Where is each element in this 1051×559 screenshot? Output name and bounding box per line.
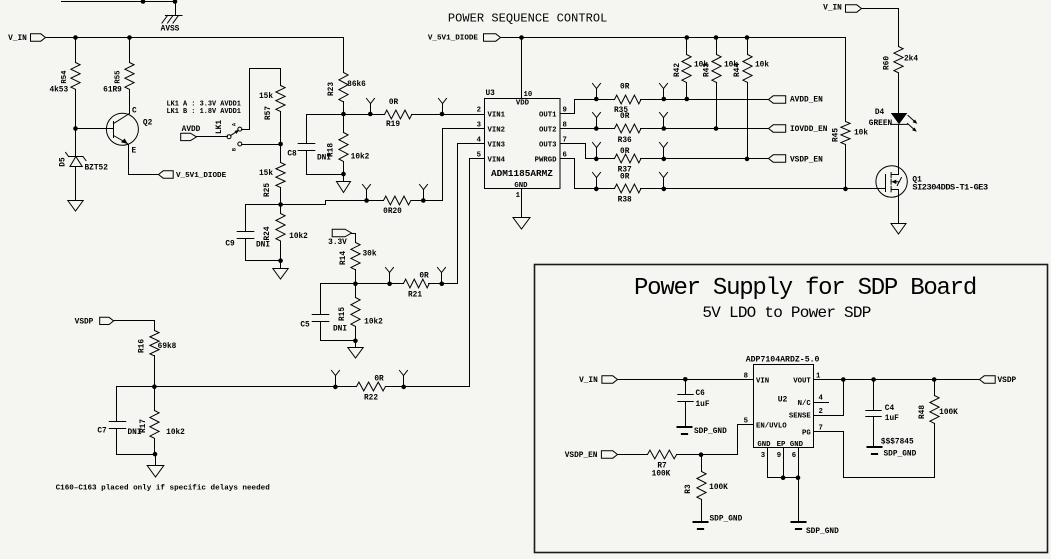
svg-text:VDD: VDD (516, 100, 530, 108)
ground SDP_GND below R3 (693, 516, 743, 530)
node V_5V1_DIODE flag (emitter) (159, 171, 227, 180)
svg-text:R16: R16 (139, 339, 147, 353)
text delay note (56, 485, 271, 493)
svg-text:OUT1: OUT1 (539, 111, 557, 119)
svg-text:7: 7 (819, 424, 823, 432)
junction R16/R17 node (152, 384, 157, 389)
ground below Q1 (891, 224, 906, 235)
wire VSDP to R16 (114, 321, 155, 331)
wire R7 to EN (677, 454, 738, 456)
resistor R60 (884, 47, 919, 114)
svg-text:10k2: 10k2 (364, 319, 383, 327)
svg-text:0R: 0R (419, 273, 429, 281)
resistor R57 (259, 69, 285, 145)
svg-text:C9: C9 (225, 241, 235, 249)
wire base to Q2 (76, 128, 114, 130)
svg-text:C160–C163 placed only if speci: C160–C163 placed only if specific delays… (56, 485, 271, 493)
svg-text:100K: 100K (939, 409, 958, 417)
junction R25/R24 node (278, 202, 283, 207)
resistor R19 (385, 99, 412, 129)
capacitor C4 (866, 380, 899, 448)
test point on VIN1 row (367, 99, 375, 117)
svg-text:86k6: 86k6 (347, 81, 366, 89)
capacitor C7 (97, 387, 155, 455)
svg-text:R36: R36 (618, 137, 632, 145)
svg-text:8: 8 (744, 372, 748, 380)
wire V_IN to R60 (862, 9, 899, 47)
resistor R16 (139, 331, 177, 387)
wire LK1-B to node AVDD1 (242, 144, 281, 146)
pins GND/EP/GND labels (757, 441, 803, 460)
svg-text:C6: C6 (696, 390, 706, 398)
junction R43 top (714, 35, 719, 40)
test point row1 right (660, 84, 668, 102)
svg-text:3: 3 (477, 122, 482, 130)
node VSDP flag (75, 317, 114, 326)
junction R15 bottom (353, 339, 358, 344)
capacitor C6 (678, 380, 710, 428)
svg-text:0R: 0R (620, 173, 630, 181)
svg-text:15k: 15k (259, 170, 273, 178)
junction R48 top (932, 377, 937, 382)
svg-text:C: C (132, 108, 137, 116)
junction R42 top (685, 35, 690, 40)
svg-text:R25: R25 (264, 183, 272, 197)
resistor R22 (357, 376, 386, 403)
ground SDP_GND below C6 (677, 427, 728, 436)
svg-text:0R: 0R (620, 148, 630, 156)
test point row1 left (593, 84, 601, 102)
op-amp U3 body (485, 90, 561, 190)
junction row3/R44 (745, 157, 750, 162)
svg-text:0R: 0R (389, 99, 399, 107)
junction C4 top (871, 377, 876, 382)
text subtitle 5V LDO to Power SDP (702, 304, 870, 322)
pin 2 SENSE wire (789, 380, 844, 421)
svg-text:R7: R7 (657, 463, 667, 471)
svg-text:R57: R57 (265, 106, 273, 120)
wire 3.3V to R14 (352, 234, 356, 243)
node 3.3V flag (328, 229, 351, 247)
wire R20 row (281, 201, 443, 205)
junction V_IN/R54 (73, 35, 78, 40)
svg-text:4: 4 (819, 394, 824, 402)
svg-text:V_IN: V_IN (823, 5, 842, 13)
svg-text:R45: R45 (833, 128, 841, 142)
node VSDP_EN flag (769, 155, 824, 165)
resistor R45 (833, 38, 869, 189)
svg-text:2: 2 (477, 107, 481, 115)
svg-text:AVDD: AVDD (182, 126, 201, 134)
svg-text:R22: R22 (364, 395, 378, 403)
wire top rail to AVSS (62, 2, 176, 16)
capacitor C5 (300, 284, 355, 341)
wire R22 row (155, 159, 485, 387)
svg-text:DNI: DNI (256, 242, 270, 250)
svg-text:C8: C8 (287, 151, 297, 159)
wire AVDD to LK1 (197, 136, 228, 138)
svg-text:PWRGD: PWRGD (535, 156, 558, 164)
pin 5 EN/UVLO wire (738, 417, 788, 454)
svg-text:30k: 30k (362, 251, 376, 259)
pin 1 VOUT label (793, 372, 821, 385)
test point R22 left (332, 371, 340, 390)
wire GND pins bus (768, 448, 799, 478)
junction R18 bottom (341, 172, 346, 177)
svg-text:$$$7845: $$$7845 (881, 439, 914, 447)
wire V_IN to U2 VIN (618, 379, 754, 381)
svg-text:3.3V: 3.3V (328, 239, 347, 247)
pin OUT3 label (539, 137, 567, 150)
svg-text:0R: 0R (620, 113, 630, 121)
svg-text:SDP_GND: SDP_GND (884, 451, 917, 459)
SDP board border (535, 265, 1048, 553)
wire OUT3 jog (561, 144, 769, 159)
resistor R24 (264, 205, 308, 261)
resistor R35 (614, 84, 641, 116)
test point row2 right (660, 113, 668, 131)
ground below R15 (348, 341, 363, 359)
svg-text:U2: U2 (778, 396, 788, 405)
junction V_IN/R55 (127, 35, 132, 40)
svg-text:GREEN: GREEN (869, 120, 893, 128)
svg-text:R44: R44 (734, 63, 742, 77)
junction R57/R25 node (278, 142, 283, 147)
svg-text:GND: GND (790, 441, 804, 449)
wire row1 right (641, 99, 769, 101)
svg-text:3: 3 (761, 452, 766, 460)
svg-text:V_IN: V_IN (8, 35, 27, 43)
svg-text:R21: R21 (408, 292, 422, 300)
svg-text:6: 6 (792, 452, 796, 460)
test point R21 left (386, 268, 394, 287)
svg-text:SENSE: SENSE (789, 413, 812, 421)
junction R45 bottom (843, 187, 848, 192)
svg-text:C7: C7 (97, 428, 107, 436)
resistor R55 (103, 38, 134, 114)
wire VOUT rail (814, 379, 980, 381)
svg-text:69k8: 69k8 (158, 343, 177, 351)
svg-text:R38: R38 (618, 196, 632, 204)
wire V_IN rail (46, 37, 344, 39)
svg-text:VIN: VIN (756, 377, 769, 385)
junction R3 top (699, 452, 704, 457)
svg-text:10k2: 10k2 (166, 429, 185, 437)
wire VSDP_EN to R7 (618, 454, 648, 456)
svg-text:N/C: N/C (798, 400, 812, 408)
svg-text:R24: R24 (264, 226, 272, 240)
pin 1 GND wire (516, 189, 522, 218)
svg-text:E: E (132, 148, 137, 156)
pin VIN4 label (477, 152, 506, 165)
test point row2 left (593, 113, 601, 131)
resistor R36 (615, 113, 642, 145)
pin OUT2 label (539, 122, 567, 135)
node VSDP_EN flag SDP (565, 451, 618, 460)
svg-text:5: 5 (477, 152, 481, 160)
svg-text:VIN4: VIN4 (488, 156, 506, 164)
svg-text:VSDP: VSDP (75, 319, 94, 327)
svg-text:LK1 B : 1.8V AVDD1: LK1 B : 1.8V AVDD1 (167, 108, 241, 116)
ground SDP_GND below U2 (791, 522, 840, 536)
node AVDD flag (181, 126, 201, 141)
svg-text:SI2304DDS-T1-GE3: SI2304DDS-T1-GE3 (912, 182, 988, 192)
wire OUT1 jog (561, 100, 615, 114)
switch LK1 (216, 120, 242, 151)
wire VIN2 jog (443, 129, 485, 201)
pin 10 VDD wire (522, 38, 533, 100)
svg-text:10k2: 10k2 (289, 233, 308, 241)
svg-text:EN/UVLO: EN/UVLO (756, 422, 787, 430)
svg-text:IOVDD_EN: IOVDD_EN (790, 126, 828, 134)
resistor R42 (674, 38, 708, 100)
svg-text:R15: R15 (339, 307, 347, 321)
pin PWRGD label (535, 152, 567, 165)
pin VIN3 label (477, 137, 506, 150)
svg-text:Power Supply for SDP Board: Power Supply for SDP Board (634, 275, 976, 302)
svg-text:1uF: 1uF (696, 401, 710, 409)
wire emitter to V_5V1_DIODE (129, 174, 159, 176)
svg-text:ADM1185ARMZ: ADM1185ARMZ (491, 168, 553, 179)
svg-text:1: 1 (516, 192, 521, 200)
svg-text:5V LDO to Power SDP: 5V LDO to Power SDP (702, 304, 870, 322)
svg-text:10k: 10k (755, 62, 769, 70)
svg-text:VSDP_EN: VSDP_EN (790, 156, 823, 164)
node IOVDD_EN flag (769, 125, 828, 134)
svg-text:R60: R60 (884, 56, 892, 70)
svg-text:SDP_GND: SDP_GND (806, 528, 839, 536)
svg-text:R43: R43 (704, 63, 712, 77)
pin VIN2 label (477, 122, 505, 135)
wire OUT2 row (561, 128, 769, 130)
svg-text:1uF: 1uF (885, 415, 899, 423)
svg-text:R55: R55 (115, 70, 123, 83)
svg-text:AVDD_EN: AVDD_EN (790, 97, 823, 105)
svg-text:61R9: 61R9 (103, 87, 122, 95)
test point row3 right (660, 143, 668, 162)
svg-text:SDP_GND: SDP_GND (710, 516, 743, 524)
node AVDD_EN flag (769, 96, 824, 105)
svg-text:ADP7104ARDZ-5.0: ADP7104ARDZ-5.0 (746, 356, 820, 365)
svg-text:DNI: DNI (333, 326, 347, 334)
resistor R44 (734, 38, 769, 159)
wire R21 row (321, 144, 485, 284)
svg-text:V_5V1_DIODE: V_5V1_DIODE (176, 172, 227, 180)
svg-text:U3: U3 (486, 90, 496, 98)
svg-text:VSDP_EN: VSDP_EN (565, 452, 598, 460)
test point R21 right (438, 268, 446, 287)
test point row4 right (660, 173, 668, 192)
junction R44 top (745, 35, 750, 40)
resistor R38 (615, 173, 642, 204)
resistor R54 (49, 38, 80, 129)
test point row3 left (593, 143, 601, 162)
node V_5V1_DIODE flag (source) (428, 34, 501, 43)
test point row4 left (593, 173, 601, 192)
svg-text:R19: R19 (386, 121, 400, 129)
capacitor C9 (225, 205, 280, 261)
svg-text:10k: 10k (854, 130, 868, 138)
svg-text:10k2: 10k2 (351, 154, 370, 162)
svg-text:R42: R42 (674, 63, 682, 77)
svg-text:5: 5 (744, 417, 748, 425)
transistor Q1 MOSFET (876, 166, 988, 224)
svg-text:0R: 0R (620, 84, 630, 92)
wire VIN1 row (344, 114, 485, 116)
svg-text:9: 9 (777, 452, 781, 460)
svg-text:VIN3: VIN3 (488, 141, 506, 149)
svg-text:R17: R17 (140, 419, 148, 433)
regulator U2 body (746, 356, 820, 448)
svg-text:15k: 15k (259, 93, 273, 101)
ground below R17 (147, 455, 164, 478)
resistor R18 (328, 115, 370, 175)
svg-text:C4: C4 (885, 405, 895, 413)
capacitor C8 (287, 115, 343, 175)
text POWER SEQUENCE CONTROL (448, 12, 608, 26)
svg-text:2: 2 (819, 408, 823, 416)
svg-text:POWER SEQUENCE CONTROL: POWER SEQUENCE CONTROL (448, 12, 608, 26)
text title Power Supply for SDP Board (634, 275, 976, 302)
resistor R7 (648, 450, 677, 478)
wire LK1-A to R57 top (242, 69, 281, 130)
resistor R20 (383, 196, 411, 216)
test point on R20 row (363, 185, 371, 203)
svg-text:VIN1: VIN1 (488, 111, 506, 119)
diode D4 GREEN LED (869, 109, 918, 169)
svg-text:LK1: LK1 (216, 120, 224, 134)
pin 8 VIN label (744, 372, 770, 385)
resistor R23 (328, 38, 366, 115)
svg-text:Q2: Q2 (143, 119, 153, 127)
ground AVSS (161, 16, 182, 34)
transistor Q2 (106, 108, 152, 175)
resistor R37 (615, 148, 642, 175)
svg-text:V_5V1_DIODE: V_5V1_DIODE (428, 35, 479, 43)
ground SDP_GND below C4 (867, 439, 917, 459)
ground below U3 (513, 218, 530, 230)
ground below D5 (68, 201, 83, 212)
svg-text:100K: 100K (652, 471, 671, 479)
svg-text:GND: GND (757, 441, 771, 449)
svg-text:D4: D4 (875, 109, 885, 117)
svg-text:C5: C5 (300, 322, 310, 330)
pin 7 PG wire (802, 424, 934, 478)
junction R23/R18 node (341, 112, 346, 117)
resistor R43 (704, 38, 739, 129)
test point VIN1 near U3 (439, 99, 447, 117)
junction SENSE/VOUT (841, 377, 846, 382)
test point R22 right (400, 371, 408, 390)
resistor R15 (339, 284, 383, 341)
pin OUT1 label (539, 107, 567, 120)
junction EP bus (781, 475, 801, 480)
node V_IN left flag (8, 34, 45, 43)
text LK1 jumper note (167, 101, 241, 117)
resistor R25 (259, 145, 285, 205)
resistor R14 (340, 243, 377, 284)
svg-text:0R20: 0R20 (383, 208, 402, 216)
resistor R17 (140, 387, 185, 455)
svg-text:VOUT: VOUT (793, 377, 811, 385)
svg-text:R14: R14 (340, 251, 348, 265)
svg-text:R54: R54 (61, 70, 69, 84)
ground below R18 (337, 175, 351, 193)
svg-text:R48: R48 (919, 405, 927, 419)
svg-text:0R: 0R (374, 376, 384, 384)
svg-text:R18: R18 (328, 143, 336, 157)
diode D5 BZT52 (zener) (60, 129, 109, 201)
junction R17 bottom (153, 452, 158, 457)
svg-text:100K: 100K (709, 484, 728, 492)
svg-text:R3: R3 (685, 484, 693, 494)
svg-text:2k4: 2k4 (904, 56, 918, 64)
svg-text:R23: R23 (328, 82, 336, 96)
junction row1/R42 (685, 97, 690, 102)
pin 4 N/C stub (798, 394, 829, 408)
node VSDP flag right (980, 376, 1017, 385)
junction base node (73, 126, 78, 131)
svg-text:4k53: 4k53 (49, 87, 68, 95)
pin VIN1 label (477, 107, 506, 120)
resistor R21 (404, 273, 430, 300)
svg-text:BZT52: BZT52 (85, 165, 109, 173)
wire bus to SDP_GND (798, 478, 800, 523)
ground below R24 (273, 261, 288, 280)
svg-text:VIN2: VIN2 (488, 126, 506, 134)
junction C6 top (683, 377, 688, 382)
svg-text:VSDP: VSDP (998, 377, 1017, 385)
test point R20 right (420, 185, 428, 203)
resistor R48 (919, 380, 958, 424)
junction R24 bottom (278, 258, 283, 263)
svg-text:OUT2: OUT2 (539, 126, 557, 134)
resistor R3 (685, 455, 728, 523)
svg-text:D5: D5 (60, 157, 68, 167)
wire PWRGD jog (561, 159, 886, 189)
wire V_5V1 rail (501, 37, 846, 39)
node V_IN flag SDP (579, 376, 617, 385)
svg-text:V_IN: V_IN (579, 377, 598, 385)
junction on top rail (141, 0, 178, 4)
svg-text:PG: PG (802, 429, 811, 437)
node V_IN flag top right (823, 5, 861, 13)
junction R14/R15 node (353, 282, 358, 287)
svg-text:AVSS: AVSS (161, 26, 180, 34)
svg-text:OUT3: OUT3 (539, 141, 557, 149)
svg-text:SDP_GND: SDP_GND (694, 428, 727, 436)
svg-text:10: 10 (524, 91, 533, 99)
junction row2/R43 (714, 126, 719, 131)
svg-text:EP: EP (777, 441, 786, 449)
svg-text:B: B (232, 148, 238, 151)
junction VDD (519, 35, 524, 40)
svg-text:4: 4 (477, 137, 482, 145)
